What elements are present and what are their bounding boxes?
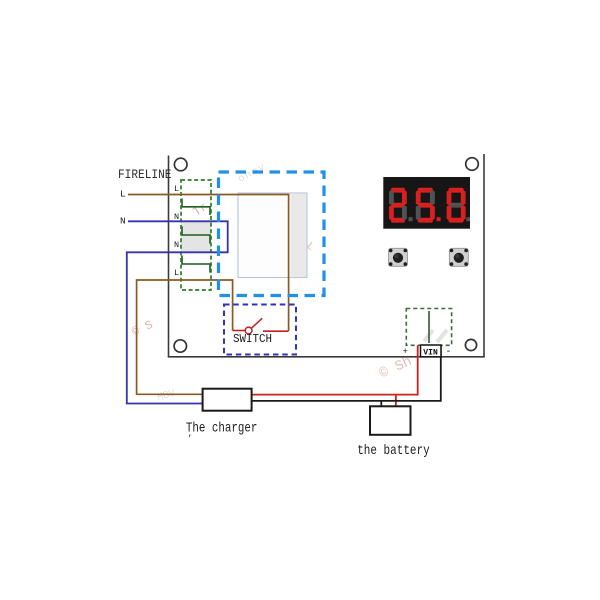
svg-text:L: L [120, 188, 126, 199]
svg-text:-: - [446, 347, 452, 358]
digit 2 [391, 188, 406, 193]
watermark gray marks in vin box [424, 330, 447, 342]
mounting hole top-left [174, 158, 187, 171]
decimal point on [437, 217, 441, 221]
relay shaded strip [291, 194, 307, 277]
switch left lead [233, 330, 246, 332]
svg-text:The charger: The charger [186, 421, 258, 437]
svg-text:N: N [174, 240, 179, 250]
wire N blue loop: right, down, back left, down to charger [127, 221, 228, 403]
switch pivot circle [245, 327, 252, 334]
board left edge [168, 156, 170, 357]
wire red battery branch [395, 395, 397, 407]
digit 5 [417, 188, 433, 193]
button S2 [449, 248, 468, 266]
svg-text:L: L [174, 184, 179, 194]
VIN box [421, 345, 442, 357]
svg-text:SWITCH: SWITCH [233, 332, 272, 346]
decimal point dim 2 [466, 217, 470, 221]
svg-text:L: L [174, 268, 179, 278]
svg-text:the battery: the battery [357, 443, 430, 459]
svg-text:VIN: VIN [423, 347, 438, 357]
switch lever [251, 318, 262, 328]
terminal staple 1 [182, 199, 210, 216]
mounting hole top-right [466, 158, 479, 171]
switch blue dashed box [224, 305, 296, 355]
mounting hole bottom-left [174, 340, 186, 352]
battery box [370, 406, 411, 435]
wire black VIN- to charger and battery [252, 346, 441, 401]
board right edge [483, 154, 485, 357]
digit 0 [448, 188, 464, 193]
svg-text:N: N [120, 216, 126, 227]
svg-text:’: ’ [187, 434, 192, 444]
switch right lead [263, 330, 289, 332]
display bezel [383, 177, 470, 229]
decimal point dim 1 [409, 217, 413, 221]
wire red VIN+ to charger and battery [252, 345, 418, 394]
wire black battery branch [380, 401, 382, 406]
terminal block green dashed outline [181, 180, 211, 290]
wire brown 2: switch left up, left, down to charger [137, 280, 233, 394]
relay body [238, 193, 307, 278]
wire L brown: from L label right then down to switch [128, 195, 289, 332]
VIN terminal green dashed box [406, 309, 451, 346]
VIN terminal green center line [428, 311, 430, 343]
mounting hole bottom-right [465, 339, 476, 350]
button S1 [389, 248, 408, 266]
svg-text:FIRELINE: FIRELINE [118, 168, 172, 182]
relay blue dashed box [219, 172, 325, 296]
charger box [203, 389, 252, 411]
terminal staple 3 [182, 256, 210, 273]
terminal staple 2 [182, 227, 210, 244]
terminal block gray body [181, 223, 211, 254]
svg-text:+: + [403, 347, 408, 357]
board bottom edge [168, 356, 485, 358]
